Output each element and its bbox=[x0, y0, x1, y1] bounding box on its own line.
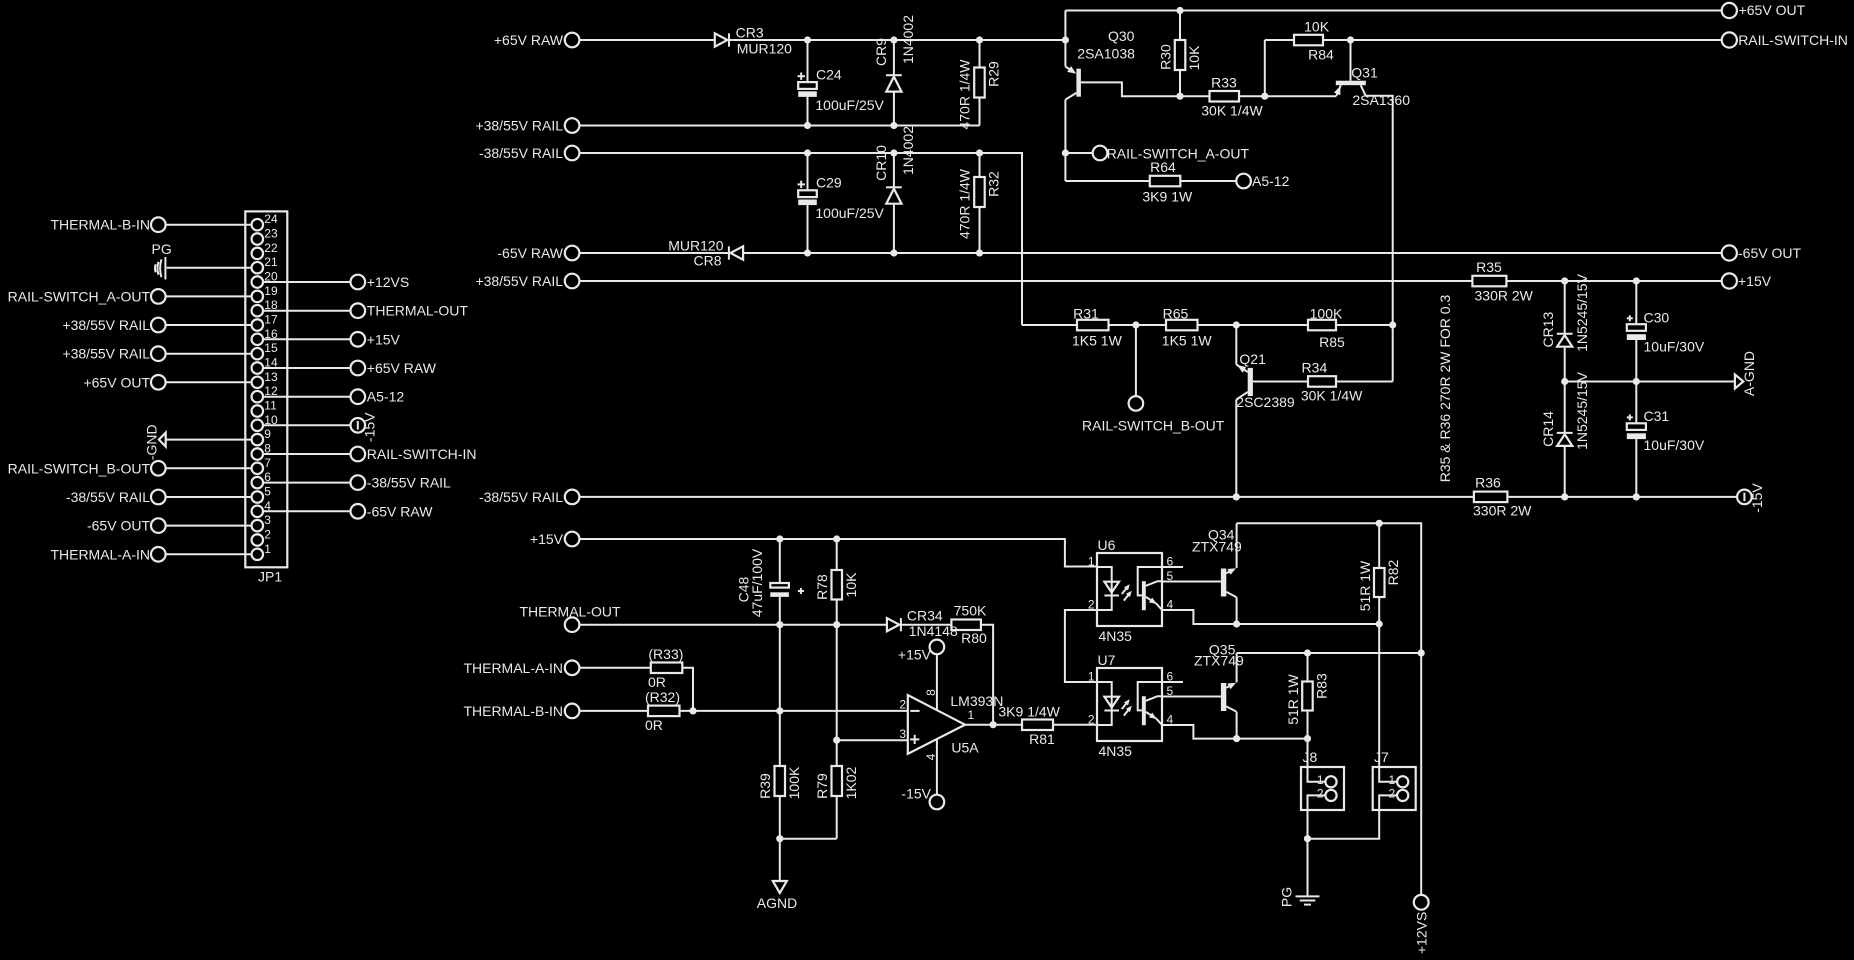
diode CR34 1N4148 bbox=[887, 618, 899, 631]
wire bbox=[166, 496, 252, 498]
svg-text:2: 2 bbox=[899, 698, 906, 712]
node bbox=[776, 621, 783, 628]
wire bbox=[682, 668, 693, 711]
svg-text:U5A: U5A bbox=[951, 740, 979, 756]
wire Q35 collector row bbox=[1237, 738, 1308, 740]
terminal -65V RAW (JP1 pin 4) bbox=[351, 504, 366, 519]
wire THERMAL-OUT bbox=[579, 624, 887, 626]
svg-text:THERMAL-B-IN: THERMAL-B-IN bbox=[463, 703, 563, 719]
JP1 pin 16 bbox=[252, 334, 264, 346]
wire bbox=[166, 381, 252, 383]
wire R84 branch bbox=[1264, 40, 1266, 96]
JP1 pin 2 bbox=[252, 534, 264, 546]
svg-text:R30: R30 bbox=[1157, 44, 1173, 70]
resistor R83 51R 1W bbox=[1307, 653, 1309, 682]
wire THERMAL-B-IN bbox=[579, 710, 648, 712]
connector JP1 bbox=[245, 211, 287, 567]
resistor R33 30K 1/4W bbox=[1210, 91, 1240, 102]
svg-text:C24: C24 bbox=[816, 67, 842, 83]
node bbox=[804, 122, 811, 129]
terminal +65V OUT bbox=[1722, 3, 1737, 18]
svg-text:470R 1/4W: 470R 1/4W bbox=[957, 59, 973, 130]
svg-text:CR8: CR8 bbox=[693, 253, 721, 269]
svg-text:+38/55V RAIL: +38/55V RAIL bbox=[475, 118, 563, 134]
wire to op-amp non-inverting input bbox=[837, 739, 908, 741]
wire J8 pin2 to PG bbox=[1307, 810, 1309, 896]
terminal -38/55V RAIL bbox=[565, 490, 580, 505]
terminal +15V op-amp supply bbox=[930, 640, 945, 655]
svg-text:2SA1038: 2SA1038 bbox=[1077, 46, 1135, 62]
svg-text:30K 1/4W: 30K 1/4W bbox=[1301, 388, 1363, 404]
wire R78/R79 branch bbox=[836, 625, 838, 766]
terminal +12VS (JP1 pin 20) bbox=[351, 275, 366, 290]
svg-text:R64: R64 bbox=[1150, 159, 1176, 175]
svg-text:R29: R29 bbox=[986, 61, 1002, 87]
svg-text:A5-12: A5-12 bbox=[1252, 173, 1290, 189]
wire bbox=[167, 267, 252, 269]
wire +65V OUT rail bbox=[1065, 10, 1721, 12]
diode CR9 1N4002 bbox=[893, 40, 895, 75]
wire bbox=[263, 310, 350, 312]
wire op-amp output bbox=[965, 724, 1022, 726]
svg-text:RAIL-SWITCH_A-OUT: RAIL-SWITCH_A-OUT bbox=[8, 288, 151, 304]
node bbox=[1376, 620, 1383, 627]
node bbox=[1176, 93, 1183, 100]
svg-text:100K: 100K bbox=[786, 766, 802, 799]
svg-text:470R 1/4W: 470R 1/4W bbox=[957, 168, 973, 239]
svg-text:-65V RAW: -65V RAW bbox=[497, 245, 563, 261]
capacitor C30 10uF/30V bbox=[1635, 281, 1637, 324]
svg-text:+12VS: +12VS bbox=[367, 274, 409, 290]
node bbox=[1233, 493, 1240, 500]
resistor (R33) 0R bbox=[651, 663, 683, 674]
svg-text:+65V OUT: +65V OUT bbox=[1739, 2, 1806, 18]
node bbox=[1376, 520, 1383, 527]
wire bbox=[1065, 180, 1149, 182]
svg-text:1N5245/15V: 1N5245/15V bbox=[1574, 371, 1590, 450]
capacitor C48 47uF/100V bbox=[779, 539, 781, 583]
svg-text:1: 1 bbox=[1088, 555, 1095, 569]
node bbox=[1062, 149, 1069, 156]
wire bbox=[263, 396, 350, 398]
svg-text:THERMAL-OUT: THERMAL-OUT bbox=[367, 303, 469, 319]
svg-text:-15V: -15V bbox=[901, 786, 931, 802]
wire bbox=[729, 39, 1065, 41]
svg-text:THERMAL-A-IN: THERMAL-A-IN bbox=[463, 660, 563, 676]
wire bbox=[1336, 381, 1393, 383]
resistor R29 470R 1/4W bbox=[979, 40, 981, 68]
svg-text:1: 1 bbox=[264, 542, 271, 556]
svg-text:R35: R35 bbox=[1476, 259, 1502, 275]
svg-text:-65V RAW: -65V RAW bbox=[367, 503, 433, 519]
resistor R84 10K bbox=[1294, 35, 1323, 46]
terminal +38/55V RAIL (JP1 pin 17) bbox=[151, 318, 166, 333]
JP1 pin 20 bbox=[252, 276, 264, 288]
wire C48/R39 branch bbox=[779, 625, 781, 766]
wire +38/55V RAIL to R35 bbox=[579, 280, 1472, 282]
ground -GND (JP1 pin 9) bbox=[159, 433, 166, 447]
svg-text:C31: C31 bbox=[1644, 408, 1670, 424]
JP1 pin 17 bbox=[252, 319, 264, 331]
svg-text:Q30: Q30 bbox=[1108, 28, 1135, 44]
wire +38/55V RAIL bbox=[579, 125, 979, 127]
wire bbox=[166, 324, 252, 326]
svg-text:2SA1360: 2SA1360 bbox=[1352, 92, 1410, 108]
node bbox=[1176, 7, 1183, 14]
terminal +15V (JP1 pin 16) bbox=[351, 332, 366, 347]
svg-text:100uF/25V: 100uF/25V bbox=[815, 97, 884, 113]
svg-text:1K5 1W: 1K5 1W bbox=[1162, 333, 1213, 349]
svg-text:3: 3 bbox=[899, 727, 906, 741]
svg-text:R39: R39 bbox=[757, 773, 773, 799]
terminal +65V RAW bbox=[565, 33, 580, 48]
svg-text:J8: J8 bbox=[1303, 749, 1318, 765]
svg-text:1K02: 1K02 bbox=[843, 766, 859, 799]
terminal -65V RAW bbox=[565, 246, 580, 261]
terminal THERMAL-A-IN bbox=[565, 661, 580, 676]
wire U6 pin 5 to Q34 base bbox=[1162, 581, 1221, 583]
wire R83 node to J8 bbox=[1307, 739, 1309, 767]
connector J8 bbox=[1301, 767, 1344, 810]
svg-text:1: 1 bbox=[1317, 773, 1324, 787]
diode CR10 1N4002 bbox=[893, 153, 895, 187]
wire bbox=[263, 281, 350, 283]
JP1 pin 1 bbox=[252, 549, 264, 561]
terminal RAIL-SWITCH-IN (JP1 pin 8) bbox=[351, 447, 366, 462]
svg-text:ZTX749: ZTX749 bbox=[1192, 539, 1242, 555]
svg-text:23: 23 bbox=[264, 227, 278, 241]
wire U6 pin 2 to U7 pin 1 bbox=[1065, 610, 1097, 682]
svg-text:21: 21 bbox=[264, 255, 278, 269]
svg-text:-65V OUT: -65V OUT bbox=[1738, 245, 1801, 261]
svg-text:+15V: +15V bbox=[898, 647, 932, 663]
svg-text:0R: 0R bbox=[645, 717, 663, 733]
node bbox=[990, 721, 997, 728]
svg-text:-15V: -15V bbox=[362, 412, 378, 442]
wire bbox=[1239, 95, 1336, 97]
svg-text:2: 2 bbox=[264, 528, 271, 542]
svg-text:RAIL-SWITCH-IN: RAIL-SWITCH-IN bbox=[1738, 32, 1848, 48]
resistor R80 750K bbox=[951, 620, 981, 631]
resistor R31 1K5 1W bbox=[1077, 320, 1109, 331]
resistor R78 10K bbox=[836, 539, 838, 570]
wire R82 node to J7 bbox=[1378, 624, 1380, 767]
svg-text:100K: 100K bbox=[1310, 306, 1343, 322]
wire to -65V OUT bbox=[743, 252, 1722, 254]
svg-text:51R 1W: 51R 1W bbox=[1357, 560, 1373, 611]
svg-text:R83: R83 bbox=[1313, 673, 1329, 699]
terminal +38/55V RAIL bbox=[565, 274, 580, 289]
svg-text:R82: R82 bbox=[1385, 559, 1401, 585]
resistor R81 3K9 1/4W bbox=[1022, 720, 1053, 731]
svg-text:22: 22 bbox=[264, 241, 278, 255]
svg-text:CR14: CR14 bbox=[1540, 411, 1556, 447]
svg-text:CR3: CR3 bbox=[736, 25, 764, 41]
wire U7 pin 6 stub bbox=[1162, 681, 1183, 683]
optocoupler U7 4N35 bbox=[1097, 668, 1162, 741]
JP1 pin 12 bbox=[252, 391, 264, 403]
capacitor C31 10uF/30V bbox=[1635, 382, 1637, 424]
svg-text:1: 1 bbox=[1088, 670, 1095, 684]
transistor Q31 2SA1360 bbox=[1350, 40, 1352, 81]
svg-text:5: 5 bbox=[264, 485, 271, 499]
svg-text:3K9 1W: 3K9 1W bbox=[1142, 189, 1193, 205]
svg-text:1N4002: 1N4002 bbox=[900, 126, 916, 175]
terminal THERMAL-OUT (JP1 pin 18) bbox=[351, 303, 366, 318]
wire bbox=[166, 295, 252, 297]
svg-text:THERMAL-OUT: THERMAL-OUT bbox=[519, 604, 621, 620]
svg-text:1: 1 bbox=[968, 708, 975, 722]
wire +12VS rail Q35 bbox=[1237, 652, 1422, 654]
svg-text:3K9 1/4W: 3K9 1/4W bbox=[998, 704, 1060, 720]
resistor R30 10K bbox=[1179, 11, 1181, 41]
node bbox=[1561, 277, 1568, 284]
svg-text:2: 2 bbox=[1389, 787, 1396, 801]
node bbox=[1233, 620, 1240, 627]
transistor Q34 ZTX749 bbox=[1221, 569, 1226, 597]
JP1 pin 13 bbox=[252, 377, 264, 389]
wire RAIL-SWITCH_B-OUT bbox=[1135, 325, 1137, 396]
wire R35 to +15V bbox=[1506, 280, 1721, 282]
JP1 pin 11 bbox=[252, 405, 264, 417]
svg-text:-15V: -15V bbox=[1749, 483, 1765, 513]
wire bbox=[1022, 324, 1077, 326]
node bbox=[1347, 36, 1354, 43]
svg-text:19: 19 bbox=[264, 284, 278, 298]
ground AGND bbox=[773, 881, 787, 893]
wire bbox=[901, 624, 952, 626]
node bbox=[776, 535, 783, 542]
svg-text:-38/55V RAIL: -38/55V RAIL bbox=[479, 145, 563, 161]
node bbox=[689, 707, 696, 714]
wire -38/55V RAIL to R36 bbox=[579, 496, 1474, 498]
wire Q34 collector row bbox=[1237, 623, 1380, 625]
svg-text:-65V OUT: -65V OUT bbox=[87, 518, 150, 534]
svg-text:R81: R81 bbox=[1029, 731, 1055, 747]
resistor R64 3K9 1W bbox=[1150, 176, 1181, 187]
svg-text:17: 17 bbox=[264, 313, 278, 327]
wire R80 to output bbox=[981, 625, 993, 725]
terminal -38/55V RAIL (JP1 pin 5) bbox=[151, 490, 166, 505]
terminal -15V op-amp supply bbox=[930, 795, 945, 810]
svg-text:CR9: CR9 bbox=[873, 38, 889, 66]
node bbox=[804, 149, 811, 156]
diode CR3 MUR120 bbox=[715, 33, 728, 46]
svg-text:PG: PG bbox=[1279, 887, 1295, 907]
JP1 pin 8 bbox=[252, 448, 264, 460]
svg-text:11: 11 bbox=[264, 399, 277, 413]
svg-text:2SC2389: 2SC2389 bbox=[1236, 394, 1295, 410]
node bbox=[1132, 321, 1139, 328]
svg-text:330R 2W: 330R 2W bbox=[1473, 503, 1532, 519]
wire U7 pin 4 bbox=[1162, 725, 1237, 739]
wire +12VS bbox=[1420, 653, 1422, 895]
terminal -65V OUT bbox=[1722, 245, 1737, 260]
capacitor C29 100uF/25V bbox=[807, 153, 809, 190]
svg-text:(R32): (R32) bbox=[645, 689, 680, 705]
terminal +12VS bbox=[1414, 895, 1429, 910]
svg-text:R84: R84 bbox=[1308, 47, 1334, 63]
svg-text:+65V RAW: +65V RAW bbox=[494, 32, 564, 48]
node bbox=[804, 36, 811, 43]
wire bbox=[166, 224, 252, 226]
wire bbox=[1064, 11, 1066, 67]
svg-text:J7: J7 bbox=[1374, 749, 1389, 765]
svg-text:15: 15 bbox=[264, 341, 278, 355]
svg-text:24: 24 bbox=[264, 212, 278, 226]
svg-text:MUR120: MUR120 bbox=[668, 238, 723, 254]
svg-text:9: 9 bbox=[264, 427, 271, 441]
svg-text:R79: R79 bbox=[814, 773, 830, 799]
wire bbox=[780, 838, 837, 840]
JP1 pin 21 bbox=[252, 262, 264, 274]
JP1 pin 7 bbox=[252, 463, 264, 475]
terminal +38/55V RAIL bbox=[565, 118, 580, 133]
node bbox=[1304, 735, 1311, 742]
svg-text:PG: PG bbox=[152, 241, 172, 257]
wire U7 pin 5 to Q35 base bbox=[1162, 696, 1221, 698]
JP1 pin 24 bbox=[252, 219, 264, 231]
svg-text:-38/55V RAIL: -38/55V RAIL bbox=[367, 475, 451, 491]
JP1 pin 4 bbox=[252, 506, 264, 518]
transistor Q30 2SA1038 bbox=[1076, 69, 1081, 97]
transistor Q35 ZTX749 bbox=[1221, 683, 1226, 711]
resistor R79 1K02 bbox=[832, 766, 843, 796]
wire bbox=[263, 424, 350, 426]
svg-text:Q21: Q21 bbox=[1239, 351, 1266, 367]
JP1 pin 9 bbox=[252, 434, 264, 446]
terminal -15V bbox=[1737, 490, 1752, 505]
svg-text:-GND: -GND bbox=[144, 424, 160, 460]
terminal A5-12 (JP1 pin 12) bbox=[351, 389, 366, 404]
node bbox=[776, 835, 783, 842]
svg-text:2: 2 bbox=[1317, 787, 1324, 801]
svg-text:AGND: AGND bbox=[757, 895, 797, 911]
wire bbox=[1198, 324, 1309, 326]
JP1 pin 19 bbox=[252, 291, 264, 303]
svg-text:+15V: +15V bbox=[1738, 273, 1772, 289]
svg-text:30K 1/4W: 30K 1/4W bbox=[1201, 103, 1263, 119]
svg-text:4N35: 4N35 bbox=[1099, 743, 1133, 759]
terminal THERMAL-A-IN (JP1 pin 1) bbox=[151, 547, 166, 562]
wire bbox=[263, 510, 350, 512]
svg-text:U7: U7 bbox=[1098, 652, 1116, 668]
svg-text:R34: R34 bbox=[1302, 360, 1328, 376]
JP1 pin 10 bbox=[252, 420, 264, 432]
node bbox=[1389, 321, 1396, 328]
wire bbox=[1109, 324, 1167, 326]
wire +65V RAW bbox=[579, 39, 714, 41]
connector J7 bbox=[1373, 767, 1416, 810]
resistor R39 100K bbox=[775, 766, 786, 796]
resistor R65 1K5 1W bbox=[1166, 320, 1198, 331]
node bbox=[1233, 321, 1240, 328]
resistor R34 30K 1/4W bbox=[1308, 376, 1336, 387]
svg-text:13: 13 bbox=[264, 370, 278, 384]
JP1 pin 22 bbox=[252, 248, 264, 260]
svg-text:R32: R32 bbox=[986, 171, 1002, 197]
svg-text:CR34: CR34 bbox=[907, 608, 943, 624]
svg-text:Q31: Q31 bbox=[1351, 64, 1378, 80]
svg-text:10uF/30V: 10uF/30V bbox=[1644, 339, 1705, 355]
svg-text:+12VS: +12VS bbox=[1414, 912, 1430, 954]
svg-text:+38/55V RAIL: +38/55V RAIL bbox=[62, 317, 150, 333]
wire bbox=[1336, 324, 1393, 326]
terminal RAIL-SWITCH_A-OUT (JP1 pin 19) bbox=[151, 289, 166, 304]
terminal A5-12 bbox=[1236, 174, 1251, 189]
resistor R32 470R 1/4W bbox=[979, 153, 981, 177]
wire bbox=[263, 453, 350, 455]
svg-text:(R33): (R33) bbox=[648, 646, 683, 662]
terminal +65V OUT (JP1 pin 13) bbox=[151, 375, 166, 390]
terminal RAIL-SWITCH_B-OUT (JP1 pin 7) bbox=[151, 461, 166, 476]
svg-text:RAIL-SWITCH_B-OUT: RAIL-SWITCH_B-OUT bbox=[1082, 418, 1225, 434]
wire op-amp V+ pin 8 bbox=[936, 654, 938, 710]
wire R36 to -15V bbox=[1507, 496, 1737, 498]
JP1 pin 14 bbox=[252, 362, 264, 374]
capacitor C24 100uF/25V bbox=[807, 40, 809, 82]
svg-text:10K: 10K bbox=[843, 572, 859, 598]
svg-text:1K5 1W: 1K5 1W bbox=[1072, 333, 1123, 349]
svg-text:10K: 10K bbox=[1186, 45, 1202, 71]
wire bbox=[263, 338, 350, 340]
svg-text:-38/55V RAIL: -38/55V RAIL bbox=[66, 489, 150, 505]
wire bbox=[1053, 724, 1097, 726]
wire RAIL-SWITCH-IN bbox=[1323, 39, 1722, 41]
JP1 pin 18 bbox=[252, 305, 264, 317]
svg-text:0R: 0R bbox=[648, 674, 666, 690]
svg-text:MUR120: MUR120 bbox=[737, 41, 792, 57]
svg-text:R78: R78 bbox=[814, 574, 830, 600]
JP1 pin 15 bbox=[252, 348, 264, 360]
svg-text:+38/55V RAIL: +38/55V RAIL bbox=[475, 273, 563, 289]
resistor R85 100K bbox=[1308, 320, 1336, 331]
svg-text:A5-12: A5-12 bbox=[367, 389, 405, 405]
svg-text:51R 1W: 51R 1W bbox=[1285, 673, 1301, 724]
terminal +15V bbox=[1722, 273, 1737, 288]
wire bbox=[166, 467, 252, 469]
svg-text:10K: 10K bbox=[1304, 18, 1330, 34]
JP1 pin 3 bbox=[252, 520, 264, 532]
resistor R35 330R 2W bbox=[1472, 276, 1506, 287]
svg-text:3: 3 bbox=[264, 513, 271, 527]
svg-text:2: 2 bbox=[1088, 713, 1095, 727]
wire bbox=[1065, 152, 1092, 154]
svg-text:C29: C29 bbox=[816, 175, 842, 191]
JP1 pin 6 bbox=[252, 477, 264, 489]
node bbox=[1233, 735, 1240, 742]
wire bbox=[263, 482, 350, 484]
terminal -38/55V RAIL bbox=[565, 146, 580, 161]
node bbox=[1561, 493, 1568, 500]
wire U6 pin 6 stub bbox=[1162, 566, 1183, 568]
svg-text:U6: U6 bbox=[1098, 537, 1116, 553]
JP1 pin 5 bbox=[252, 491, 264, 503]
wire op-amp V- pin 4 bbox=[936, 739, 938, 795]
diode CR8 MUR120 bbox=[728, 246, 730, 259]
terminal THERMAL-OUT bbox=[565, 617, 580, 632]
svg-text:ZTX749: ZTX749 bbox=[1194, 653, 1244, 669]
terminal +15V bbox=[565, 532, 580, 547]
terminal THERMAL-B-IN bbox=[565, 704, 580, 719]
svg-text:1N5245/15V: 1N5245/15V bbox=[1574, 273, 1590, 352]
wire +15V bbox=[579, 539, 1097, 567]
svg-text:+15V: +15V bbox=[367, 331, 401, 347]
terminal -65V OUT (JP1 pin 3) bbox=[151, 518, 166, 533]
svg-text:+65V RAW: +65V RAW bbox=[367, 360, 437, 376]
svg-text:10uF/30V: 10uF/30V bbox=[1644, 437, 1705, 453]
svg-text:LM393N: LM393N bbox=[950, 693, 1003, 709]
